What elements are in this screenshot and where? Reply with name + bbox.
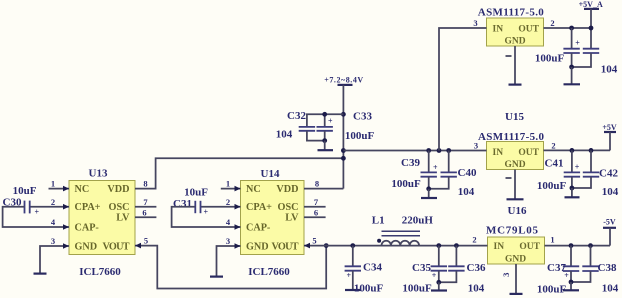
svg-text:+: +: [433, 163, 438, 172]
svg-text:IN: IN: [493, 148, 504, 158]
inductor L1 polarity dot: [377, 239, 381, 243]
svg-text:L1: L1: [372, 215, 385, 227]
wire C39 bottom to ground: [428, 189, 430, 198]
capacitor C41 drop: [571, 150, 573, 172]
pin arrow U14.4: [235, 224, 241, 230]
svg-text:NC: NC: [246, 184, 261, 195]
svg-text:1: 1: [550, 234, 554, 244]
regulator U16 body (MC79L05): [488, 237, 545, 265]
svg-text:LV: LV: [285, 213, 299, 224]
capacitor top 100uF drop: [571, 28, 573, 48]
wire C39/C40 bottoms join: [429, 177, 449, 189]
svg-text:GND: GND: [504, 37, 525, 47]
capacitor C40 plates: [441, 171, 457, 173]
svg-text:100uF: 100uF: [537, 283, 567, 295]
svg-text:100uF: 100uF: [537, 180, 567, 192]
wire C30 right plate to U13 pin2: [30, 206, 69, 208]
svg-text:MC79L05: MC79L05: [486, 225, 539, 237]
svg-text:OSC: OSC: [109, 202, 130, 213]
svg-text:+5V_A: +5V_A: [579, 0, 603, 9]
wire C41/C42 bottoms join: [572, 177, 591, 188]
svg-text:5: 5: [312, 236, 316, 246]
capacitor C37 plates: [563, 265, 579, 267]
svg-text:8: 8: [315, 179, 319, 189]
svg-text:+: +: [204, 207, 209, 216]
capacitor C34 drop: [352, 246, 354, 266]
junction C33 bottom: [322, 138, 327, 143]
wire main supply vertical: [342, 85, 344, 189]
svg-text:CAP-: CAP-: [75, 222, 100, 233]
ground bar C34: [345, 289, 361, 291]
svg-text:VOUT: VOUT: [103, 241, 130, 252]
wire C37/C38 bottoms join: [571, 271, 591, 282]
svg-text:2: 2: [551, 140, 555, 150]
wire C31 left plate around to U14 pin4: [172, 207, 241, 227]
pin arrow U14.5: [304, 243, 310, 249]
svg-text:5: 5: [144, 236, 148, 246]
svg-text:C39: C39: [401, 157, 420, 169]
svg-text:OUT: OUT: [519, 242, 540, 252]
svg-text:10uF: 10uF: [13, 185, 37, 197]
ground bar C35/C36: [431, 289, 447, 291]
regulator body (top ASM1117-5.0, +5V_A): [487, 18, 544, 47]
svg-text:2: 2: [51, 197, 55, 207]
ground bar C41/C42: [565, 196, 580, 198]
junction C32/C33 tap: [341, 112, 346, 117]
svg-text:OSC: OSC: [278, 202, 299, 213]
svg-text:VOUT: VOUT: [272, 241, 299, 252]
svg-text:C31: C31: [173, 198, 192, 210]
junction top 100uF tap: [569, 26, 574, 31]
capacitor C38 plates: [582, 265, 598, 267]
svg-text:2: 2: [226, 197, 230, 207]
capacitor C39 plates: [421, 171, 437, 173]
svg-text:2: 2: [550, 18, 554, 28]
wire U13 pin7 OSC stub: [135, 206, 156, 208]
svg-text:+5V: +5V: [602, 123, 617, 132]
wire top regulator pin2 OUT: [544, 27, 592, 29]
wire C31 right plate to U14 pin2: [201, 206, 241, 208]
junction C37 tap: [569, 243, 574, 248]
svg-text:6: 6: [314, 208, 318, 218]
wire U16 pin1 OUT: [545, 245, 611, 247]
capacitor C38 drop: [590, 246, 592, 266]
svg-text:U15: U15: [505, 111, 524, 123]
svg-text:104: 104: [458, 186, 475, 198]
wire riser to top regulator pin3: [439, 28, 487, 151]
regulator U15 body: [487, 142, 544, 171]
junction top 104 tap: [589, 26, 594, 31]
svg-text:10uF: 10uF: [184, 187, 208, 199]
junction C39 bottom: [426, 186, 431, 191]
svg-text:C35: C35: [412, 262, 431, 274]
svg-text:U14: U14: [261, 168, 280, 180]
junction top-reg riser: [437, 148, 442, 153]
wire U13 pin1 NC stub: [49, 188, 70, 190]
svg-text:+: +: [575, 162, 580, 171]
svg-text:3: 3: [473, 18, 477, 28]
wire C33 bottom to ground: [324, 141, 326, 150]
wire top caps bottoms join: [572, 53, 591, 67]
ground bar C32/C33: [318, 149, 334, 151]
junction C35 tap: [436, 243, 441, 248]
svg-text:220uH: 220uH: [402, 215, 434, 227]
wire +5V_A vertical through rail to 104 cap: [590, 9, 592, 48]
ground bar U15: [507, 198, 524, 200]
wire C37 to ground: [570, 282, 572, 290]
wire C41 to ground: [571, 188, 573, 197]
svg-text:GND: GND: [504, 160, 525, 170]
wire U14 pin6 LV stub: [304, 216, 326, 218]
junction C41 bottom: [570, 186, 575, 191]
svg-text:100uF: 100uF: [535, 52, 565, 64]
wire U13 pin3 GND: [40, 246, 69, 273]
capacitor C34 plates: [345, 265, 361, 267]
svg-text:8: 8: [143, 179, 147, 189]
junction C38 tap: [588, 243, 593, 248]
capacitor C42 plates: [583, 171, 599, 173]
wire U14 pin1 NC stub: [221, 188, 241, 190]
pin arrow U14.1: [235, 186, 241, 192]
svg-text:6: 6: [142, 208, 146, 218]
pin arrow U14.3: [235, 243, 241, 249]
svg-text:ICL7660: ICL7660: [79, 266, 121, 278]
junction U13 VOUT riser on rail: [324, 243, 329, 248]
pin number U15.1 (rotated): [506, 177, 512, 179]
capacitor C36 plates: [448, 265, 464, 267]
ground bar U16: [510, 293, 523, 295]
power +5V bar: [604, 131, 616, 133]
svg-text:U16: U16: [508, 205, 527, 217]
svg-text:3: 3: [501, 273, 511, 277]
svg-text:OUT: OUT: [518, 148, 539, 158]
junction C33 top: [322, 112, 327, 117]
ground bar U14: [210, 276, 223, 278]
capacitor C35 drop: [438, 246, 440, 266]
IC U13 body (ICL7660 charge pump): [69, 181, 135, 255]
power -5V bar: [603, 227, 616, 229]
svg-text:C33: C33: [353, 111, 372, 123]
svg-text:+: +: [347, 271, 352, 280]
svg-text:ASM1117-5.0: ASM1117-5.0: [478, 131, 545, 143]
wire C34 to ground: [352, 271, 354, 290]
capacitor C35 plates: [431, 265, 447, 267]
svg-text:C32: C32: [287, 110, 306, 122]
svg-text:3: 3: [51, 236, 55, 246]
capacitor C36 drop: [455, 246, 457, 266]
wire C32/C33 top tap: [307, 114, 344, 126]
capacitor top 104 plates: [583, 48, 599, 50]
svg-text:100uF: 100uF: [402, 282, 432, 294]
capacitor C40 drop wire: [448, 151, 450, 173]
pin arrow U13.3: [63, 243, 69, 249]
wire top regulator GND pin: [514, 46, 516, 84]
svg-text:IN: IN: [493, 24, 504, 34]
svg-text:104: 104: [601, 63, 618, 75]
svg-text:C34: C34: [363, 262, 382, 274]
ground bar C37/C38: [563, 289, 579, 291]
svg-text:VDD: VDD: [276, 184, 298, 195]
svg-text:1: 1: [226, 179, 230, 189]
svg-text:100uF: 100uF: [391, 178, 421, 190]
wire U13 pin5 VOUT to bottom rail: [135, 246, 326, 289]
svg-text:ICL7660: ICL7660: [248, 266, 290, 278]
wire U13 pin8 VDD to +rail: [135, 158, 343, 188]
wire C35 to ground: [438, 282, 440, 290]
IC U14 body (ICL7660 charge pump): [241, 181, 305, 255]
pin arrow U13.5: [135, 243, 141, 249]
svg-text:3: 3: [474, 140, 478, 150]
capacitor C41 plates: [564, 171, 580, 173]
svg-text:C37: C37: [547, 262, 566, 274]
wire U14 pin8 VDD to main vertical: [304, 188, 343, 190]
ground bar C39/C40: [421, 197, 437, 199]
svg-text:+: +: [328, 116, 333, 125]
svg-text:GND: GND: [75, 241, 98, 252]
svg-text:104: 104: [602, 186, 619, 198]
pin number top-reg.1 (rotated): [506, 55, 512, 57]
ground bar top regulator: [509, 83, 522, 85]
wire U13 pin6 LV stub: [135, 216, 156, 218]
wire to ground top caps: [571, 67, 573, 84]
svg-text:CAP-: CAP-: [246, 222, 271, 233]
capacitor C39 drop wire: [428, 151, 430, 173]
svg-text:OUT: OUT: [518, 24, 539, 34]
capacitor top 100uF plates: [563, 48, 579, 50]
junction C42 tap: [589, 148, 594, 153]
junction C34 tap: [350, 243, 355, 248]
wire U14 pin5 VOUT bottom rail to U16: [304, 245, 488, 247]
pin arrow U14.2: [235, 204, 241, 210]
capacitor C30 plates: [24, 201, 26, 214]
wire C35/C36 bottoms join: [439, 271, 457, 283]
wire C33 top drop: [324, 114, 326, 126]
junction regulator rail tap: [341, 148, 346, 153]
wire U14 pin3 GND: [217, 246, 241, 276]
svg-text:GND: GND: [246, 241, 269, 252]
wire +5V vertical: [609, 132, 611, 150]
svg-text:+7.2~8.4V: +7.2~8.4V: [324, 75, 363, 84]
svg-text:100uF: 100uF: [354, 282, 384, 294]
wire U16 GND pin: [515, 264, 517, 293]
capacitor C33 plates: [317, 126, 333, 128]
svg-text:C38: C38: [598, 262, 617, 274]
svg-text:100uF: 100uF: [345, 130, 375, 142]
svg-text:2: 2: [472, 234, 476, 244]
svg-text:+: +: [35, 207, 40, 216]
svg-text:GND: GND: [505, 255, 526, 265]
junction C40 tap: [446, 148, 451, 153]
svg-text:3: 3: [226, 236, 230, 246]
svg-text:-5V: -5V: [603, 218, 616, 227]
wire U15 pin2 OUT: [544, 149, 611, 151]
ground bar U13: [34, 273, 47, 275]
svg-text:+: +: [575, 39, 580, 48]
inductor L1 coil: [382, 241, 420, 246]
svg-text:+: +: [432, 271, 437, 280]
junction C37 bottom: [569, 280, 574, 285]
svg-text:104: 104: [276, 128, 293, 140]
pin arrow U13.1: [63, 186, 69, 192]
svg-text:VDD: VDD: [107, 184, 129, 195]
wire U15 GND pin: [514, 170, 516, 199]
wire regulator rail to U15 pin3: [343, 150, 486, 152]
capacitor C32 plates: [299, 126, 315, 128]
svg-text:LV: LV: [116, 213, 130, 224]
wire U14 pin7 OSC stub: [304, 206, 326, 208]
power +5V_A bar: [584, 8, 599, 10]
capacitor C42 drop: [590, 150, 592, 172]
pin arrow U13.2: [63, 204, 69, 210]
svg-text:104: 104: [602, 282, 619, 294]
ground bar top caps: [564, 83, 581, 85]
junction top caps bottom: [569, 65, 574, 70]
svg-text:CPA+: CPA+: [246, 202, 272, 213]
wire C32/C33 bottoms join: [307, 131, 325, 141]
svg-text:IN: IN: [494, 242, 505, 252]
svg-text:104: 104: [468, 282, 485, 294]
junction C41 tap: [570, 148, 575, 153]
svg-text:ASM1117-5.0: ASM1117-5.0: [478, 7, 545, 19]
wire C30 left plate around to U13 pin4: [3, 207, 69, 227]
svg-text:C40: C40: [458, 167, 477, 179]
power +7.2~8.4V bar: [338, 84, 353, 86]
svg-text:U13: U13: [89, 167, 108, 179]
junction C39 tap: [426, 148, 431, 153]
svg-text:C36: C36: [467, 262, 486, 274]
svg-text:CPA+: CPA+: [75, 202, 101, 213]
svg-text:C42: C42: [599, 168, 618, 180]
junction U13 VDD rail tap: [341, 156, 346, 161]
junction C35 bottom: [436, 280, 441, 285]
inductor L1 core bars: [382, 230, 421, 232]
capacitor C37 drop: [570, 246, 572, 266]
capacitor C31 plates: [194, 201, 196, 213]
junction C36 tap: [454, 243, 459, 248]
pin arrow U13.4: [63, 224, 69, 230]
svg-text:1: 1: [51, 179, 55, 189]
svg-text:NC: NC: [75, 184, 90, 195]
wire -5V vertical: [609, 228, 611, 246]
svg-text:C41: C41: [545, 158, 564, 170]
